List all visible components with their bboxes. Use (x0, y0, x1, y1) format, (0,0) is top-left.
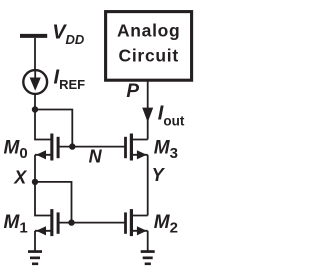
wire M0 source to node X (34, 155, 36, 182)
current source IREF (23, 70, 47, 94)
wire gate line N (M0 gate to M3 gate) (59, 146, 125, 148)
svg-text:Iout: Iout (158, 102, 185, 128)
wire node A to M0 drain (35, 110, 52, 140)
transistor M3 (124, 134, 148, 161)
wire M2 source to ground (147, 231, 149, 251)
wire IREF to node A (34, 94, 36, 110)
svg-text:M3: M3 (154, 138, 178, 163)
wire node A to node N (diode connection) (35, 110, 72, 147)
Iout current arrow (142, 108, 153, 123)
wire lower gate line (M1 gate to M2 gate) (59, 222, 125, 224)
node N junction dot (69, 143, 75, 149)
transistor M0 (35, 134, 60, 161)
svg-text:M1: M1 (4, 212, 28, 237)
svg-text:M2: M2 (154, 212, 178, 237)
svg-text:VDD: VDD (52, 22, 85, 47)
wire node X to M1 drain (35, 182, 52, 216)
svg-text:IREF: IREF (54, 67, 86, 93)
wire M1 source to ground (34, 231, 36, 251)
wire node X to lower gate line (35, 182, 72, 223)
wire VDD to IREF source (34, 38, 36, 70)
Analog Circuit box (106, 12, 192, 81)
transistor M2 (124, 209, 148, 236)
ground symbol right (141, 250, 155, 265)
transistor M1 (35, 209, 60, 236)
svg-text:Analog: Analog (117, 21, 181, 41)
wire node Y (M3 source to M2 drain) (147, 155, 149, 216)
junction dot M1 gate (68, 219, 74, 225)
svg-text:P: P (126, 81, 139, 102)
svg-text:N: N (89, 147, 103, 167)
svg-text:Circuit: Circuit (119, 46, 179, 66)
node A junction dot (32, 106, 38, 112)
svg-text:M0: M0 (4, 138, 28, 163)
node X junction dot (32, 179, 38, 185)
VDD supply bar (20, 34, 47, 38)
ground symbol left (28, 250, 42, 265)
svg-text:Y: Y (152, 165, 166, 185)
svg-text:X: X (13, 167, 27, 187)
wire Analog Circuit to M3 drain (147, 81, 149, 140)
